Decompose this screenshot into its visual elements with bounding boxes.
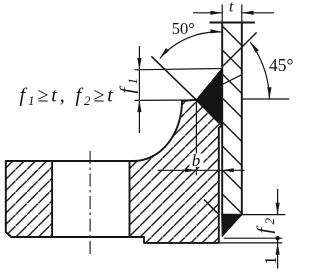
dimension 1: up arrow	[276, 243, 280, 255]
45-degree chamfer reference line	[222, 32, 257, 67]
45-degree arc arrow bottom	[267, 87, 271, 99]
plate right face	[241, 23, 243, 216]
svg-text:1: 1	[261, 256, 280, 265]
dimension f2: dot terminator	[275, 236, 279, 240]
dimension f1: lower extension line / flange surface	[135, 99, 197, 101]
plate left face	[221, 23, 223, 216]
45-degree horizontal reference line	[242, 98, 289, 100]
svg-text:f1≥t, f2≥t: f1≥t, f2≥t	[20, 85, 116, 109]
hole left wall	[51, 161, 53, 238]
dimension t: dimension line right with arrow	[242, 12, 274, 14]
upper weld (filled)	[196, 68, 222, 126]
plate bottom edge	[222, 214, 242, 216]
dimension b: left arrow	[185, 168, 196, 172]
lower weld (filled)	[222, 214, 243, 236]
svg-text:f2: f2	[253, 217, 277, 233]
weld bead bottom extension line	[224, 237, 282, 239]
dimension f1: upper extension line	[135, 69, 223, 70]
dimension b: extension line from weld toe	[195, 101, 197, 175]
plate top break edge	[210, 22, 255, 24]
45-degree arc arrow top	[250, 42, 259, 53]
dimension b: right arrow	[222, 168, 234, 172]
label b backing	[190, 154, 204, 168]
dimension f1: top arrow	[137, 58, 141, 70]
dimension f2/1: lower dimension line	[277, 238, 279, 268]
flange bottom face right portion / 1mm extension line	[219, 242, 282, 244]
50-degree arc arrow right	[210, 29, 222, 33]
bolt hole (white opening in flange bar)	[52, 162, 129, 236]
centre line of bolt hole (dash-dot)	[89, 151, 91, 258]
50-degree arc	[160, 32, 222, 59]
flange body (hatched section)	[6, 100, 222, 243]
flange bore chamfer line	[204, 200, 219, 215]
dimension t: extension lines	[221, 4, 223, 22]
dimension f2: top extension line	[242, 214, 285, 216]
45-degree arc	[250, 42, 269, 99]
svg-text:45°: 45°	[269, 55, 293, 75]
dimension b: dimension line	[158, 169, 245, 171]
50-degree bevel reference line	[151, 56, 196, 100]
50-degree arc arrow left	[160, 48, 169, 58]
dimension f1: dimension line	[138, 46, 140, 133]
svg-text:b: b	[192, 151, 201, 170]
vertical plate (hatched section)	[222, 23, 242, 216]
plate auxiliary hatch line	[222, 75, 242, 85]
hole right wall	[129, 161, 131, 238]
dimension t: dimension line left with arrow	[193, 12, 222, 14]
svg-text:t: t	[229, 0, 234, 16]
dimension f1: bottom arrow	[137, 100, 141, 112]
dimension f2: upper dimension line with arrow	[277, 189, 279, 215]
svg-text:f1: f1	[117, 78, 141, 94]
svg-text:50°: 50°	[172, 19, 195, 38]
